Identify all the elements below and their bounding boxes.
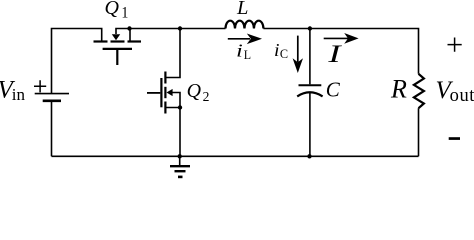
wire capacitor branch lower	[309, 93, 311, 157]
svg-text:Q: Q	[105, 0, 120, 19]
wire left-lower: battery- down	[51, 101, 53, 157]
wire Q2 source lead	[165, 108, 180, 157]
battery plate -	[43, 100, 61, 103]
label plus output	[448, 38, 462, 52]
battery plate +	[35, 93, 69, 95]
Q2 channel segment source	[164, 102, 166, 114]
wire bottom	[52, 155, 419, 157]
node dot ground	[178, 154, 182, 158]
wire ground stem	[179, 156, 181, 165]
label minus output	[449, 137, 460, 140]
Q1 gate bar	[103, 48, 132, 50]
resistor R	[414, 74, 424, 108]
node dot Q1 source	[127, 26, 131, 30]
wire Q2 drain lead	[165, 29, 180, 78]
Q1 channel segment drain	[94, 40, 108, 42]
svg-text:L: L	[244, 48, 251, 62]
ground	[170, 166, 190, 177]
wire top-right: inductor to corner, down to resistor	[263, 29, 418, 74]
svg-text:i: i	[274, 40, 280, 60]
battery Vin	[35, 94, 69, 101]
Q1 channel segment source	[128, 40, 142, 42]
svg-text:C: C	[280, 47, 288, 61]
svg-text:i: i	[236, 41, 243, 61]
wire right-lower: resistor to bottom corner	[418, 108, 420, 156]
transistor Q2	[147, 72, 165, 114]
arrow I vector	[324, 33, 359, 44]
battery plus sign	[34, 80, 46, 92]
Q1 body arrow	[112, 34, 120, 40]
wire top-mid: Q1 body stem along to inductor	[116, 29, 226, 35]
svg-text:R: R	[390, 75, 407, 104]
node dot Q2 source-body	[178, 105, 182, 109]
Q2 channel segment body	[164, 87, 166, 98]
svg-text:1: 1	[121, 5, 128, 22]
svg-text:out: out	[450, 86, 474, 106]
Q2 channel segment drain	[164, 72, 166, 84]
svg-text:Q: Q	[187, 80, 202, 102]
arrow iL	[228, 34, 262, 45]
wire top-left: Vin+ up and right to Q1 drain	[52, 29, 102, 94]
svg-text:C: C	[326, 78, 341, 102]
Q2 body arrow	[167, 89, 173, 96]
transistor Q1	[94, 42, 142, 66]
capacitor C	[297, 85, 322, 96]
inductor L	[226, 21, 264, 29]
Q1 gate lead	[116, 50, 118, 65]
node dot L-C top	[308, 26, 312, 30]
svg-text:L: L	[236, 0, 248, 19]
svg-text:in: in	[12, 85, 26, 104]
Q1 channel segment body	[111, 40, 125, 42]
svg-text:2: 2	[203, 90, 210, 105]
Q2 gate lead	[147, 92, 160, 94]
node dot C bottom	[307, 154, 311, 158]
node dot Q2 drain	[178, 26, 182, 30]
arrow iC	[293, 36, 303, 73]
C curved plate	[297, 92, 322, 96]
wire capacitor branch upper	[309, 29, 311, 85]
wire Q1 source stub	[129, 29, 131, 41]
Q2 gate bar	[160, 78, 162, 107]
C top plate	[299, 84, 322, 86]
wire Q2 body tail	[172, 93, 181, 108]
